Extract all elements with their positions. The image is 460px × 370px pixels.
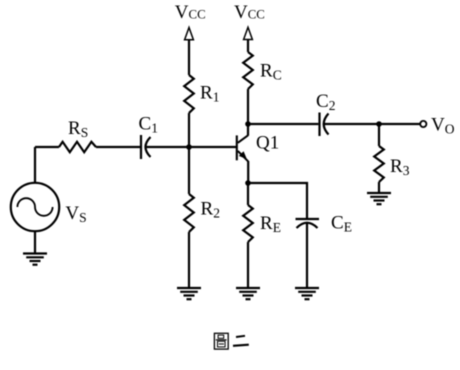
VCC supply 2 arrow	[244, 27, 253, 39]
svg-text:Q1: Q1	[256, 133, 279, 154]
wire: CE to ground	[306, 223, 308, 288]
node: output terminal circle	[420, 121, 426, 127]
caption: figure title (drawn glyphs)	[214, 333, 248, 349]
wire: RE to ground	[247, 242, 249, 288]
wire: collector rail to C2	[248, 123, 318, 125]
node: collector junction dot	[245, 121, 251, 127]
node: base junction dot	[186, 144, 192, 150]
VCC supply 1 arrow	[185, 28, 194, 40]
ground (CE)	[295, 288, 319, 299]
node: output junction dot	[376, 121, 382, 127]
wire: VCC2 to RC	[247, 40, 249, 53]
wire: VCC1 to R1	[188, 40, 190, 75]
wire: output node to R3	[378, 124, 380, 146]
wire: RC to collector	[247, 89, 249, 136]
ground (source)	[23, 254, 47, 265]
ground (R2)	[177, 288, 201, 299]
capacitor C1	[141, 135, 151, 159]
wire: R1 to R2 through base node	[188, 113, 190, 194]
node: emitter junction dot	[245, 180, 251, 186]
resistor RS	[59, 142, 96, 152]
wire: C2 to output terminal	[324, 123, 420, 125]
resistor R3	[374, 146, 384, 182]
capacitor CE	[296, 219, 320, 228]
wire: R3 to ground	[378, 182, 380, 193]
resistor RC	[243, 52, 253, 89]
resistor RE	[243, 205, 253, 242]
wire: C1 to base	[146, 146, 236, 148]
ground (RE)	[236, 288, 260, 299]
ground (R3)	[367, 193, 391, 204]
wire: R2 to ground	[188, 232, 190, 288]
wire: emitter rail to CE	[248, 183, 307, 218]
wire: source bottom to ground	[34, 231, 36, 253]
wire: RS to C1	[96, 146, 140, 148]
transistor Q1	[237, 135, 248, 161]
resistor R1	[184, 75, 194, 113]
resistor R2	[184, 194, 194, 232]
wire: source top to RS	[35, 146, 59, 148]
capacitor C2	[320, 113, 329, 137]
source VS	[11, 183, 59, 231]
wire: source circle top	[34, 147, 36, 183]
wire: emitter to RE through emitter node	[247, 161, 249, 205]
